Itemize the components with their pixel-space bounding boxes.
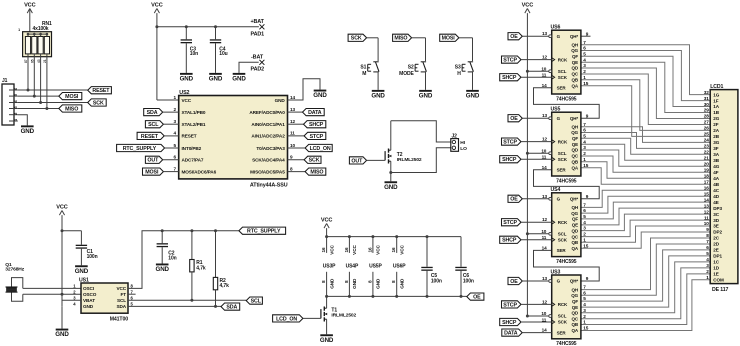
svg-text:QH*: QH* bbox=[570, 116, 579, 121]
svg-text:1B: 1B bbox=[713, 110, 719, 115]
svg-text:VCC: VCC bbox=[182, 98, 192, 103]
svg-text:SCK: SCK bbox=[93, 100, 104, 106]
svg-text:18: 18 bbox=[704, 173, 709, 178]
svg-text:QH: QH bbox=[571, 43, 578, 48]
svg-text:RESET: RESET bbox=[92, 88, 110, 94]
svg-text:OE: OE bbox=[473, 295, 481, 301]
svg-text:MOSI: MOSI bbox=[65, 94, 79, 100]
svg-text:QG: QG bbox=[571, 48, 578, 53]
svg-text:SHCP: SHCP bbox=[502, 75, 517, 81]
svg-text:14: 14 bbox=[542, 328, 547, 333]
svg-text:2A: 2A bbox=[713, 128, 719, 133]
svg-text:S3: S3 bbox=[455, 65, 461, 71]
svg-text:14: 14 bbox=[542, 245, 547, 250]
svg-text:VCC: VCC bbox=[522, 3, 534, 9]
svg-text:IRLML2502: IRLML2502 bbox=[331, 313, 356, 319]
svg-text:STCP: STCP bbox=[503, 220, 517, 226]
svg-text:15: 15 bbox=[583, 243, 588, 248]
svg-text:QB: QB bbox=[571, 322, 578, 327]
svg-text:10n: 10n bbox=[168, 256, 176, 262]
svg-text:12: 12 bbox=[542, 55, 547, 60]
svg-text:H: H bbox=[457, 71, 461, 77]
svg-text:74HC595: 74HC595 bbox=[556, 178, 577, 184]
svg-text:14: 14 bbox=[704, 197, 709, 202]
svg-text:PAD2: PAD2 bbox=[251, 67, 265, 73]
svg-text:3D: 3D bbox=[713, 218, 719, 223]
svg-text:4C: 4C bbox=[713, 188, 719, 193]
svg-text:30: 30 bbox=[704, 102, 709, 107]
svg-text:SCL: SCL bbox=[148, 122, 159, 128]
svg-text:S2: S2 bbox=[408, 65, 414, 71]
svg-text:14: 14 bbox=[542, 165, 547, 170]
svg-text:GND: GND bbox=[232, 76, 246, 83]
svg-text:GND: GND bbox=[466, 93, 480, 100]
svg-text:QG: QG bbox=[571, 293, 578, 298]
svg-text:US2: US2 bbox=[179, 90, 189, 96]
svg-text:GND: GND bbox=[209, 76, 223, 83]
svg-text:OSCO: OSCO bbox=[83, 292, 97, 297]
svg-text:GND: GND bbox=[400, 278, 405, 289]
svg-text:14: 14 bbox=[542, 83, 547, 88]
svg-text:IRLML2502: IRLML2502 bbox=[397, 157, 422, 163]
svg-text:QF: QF bbox=[572, 299, 578, 304]
svg-text:GND: GND bbox=[275, 98, 286, 103]
svg-text:XTAL1/PB0: XTAL1/PB0 bbox=[182, 110, 206, 115]
svg-text:SCK: SCK bbox=[558, 75, 568, 80]
svg-text:29: 29 bbox=[704, 108, 709, 113]
svg-text:COM: COM bbox=[713, 278, 724, 283]
svg-text:QE: QE bbox=[572, 223, 578, 228]
svg-text:SCL: SCL bbox=[251, 299, 262, 305]
svg-text:VCC: VCC bbox=[400, 245, 405, 255]
svg-text:-BAT: -BAT bbox=[251, 54, 264, 60]
svg-text:16: 16 bbox=[321, 247, 326, 252]
svg-text:LCD1: LCD1 bbox=[710, 84, 723, 90]
svg-text:27: 27 bbox=[704, 120, 709, 125]
svg-text:QB: QB bbox=[571, 240, 578, 245]
svg-text:2B: 2B bbox=[713, 134, 719, 139]
svg-text:QF: QF bbox=[572, 136, 578, 141]
svg-text:12: 12 bbox=[290, 119, 295, 124]
svg-text:32: 32 bbox=[704, 90, 709, 95]
svg-text:10: 10 bbox=[541, 148, 546, 153]
svg-text:SCK/ADC4/PA4: SCK/ADC4/PA4 bbox=[252, 158, 285, 163]
svg-text:13: 13 bbox=[542, 113, 547, 118]
svg-text:GND: GND bbox=[55, 331, 69, 338]
svg-text:4F: 4F bbox=[713, 170, 718, 175]
svg-text:10: 10 bbox=[541, 229, 546, 234]
svg-text:4,7k: 4,7k bbox=[196, 265, 206, 271]
svg-text:SCL: SCL bbox=[558, 314, 567, 319]
svg-text:US6P: US6P bbox=[393, 263, 406, 269]
svg-text:RCK: RCK bbox=[558, 57, 568, 62]
svg-text:MISO: MISO bbox=[310, 170, 323, 176]
svg-text:M: M bbox=[362, 71, 366, 77]
svg-text:13: 13 bbox=[542, 31, 547, 36]
svg-text:QH*: QH* bbox=[570, 197, 579, 202]
svg-text:QF: QF bbox=[572, 54, 578, 59]
svg-text:QB: QB bbox=[571, 77, 578, 82]
svg-text:4A: 4A bbox=[713, 176, 719, 181]
svg-text:MOSI: MOSI bbox=[145, 170, 159, 176]
svg-text:VCC: VCC bbox=[329, 245, 334, 255]
svg-text:SDA: SDA bbox=[147, 110, 158, 116]
svg-text:GND: GND bbox=[384, 184, 398, 191]
svg-text:VCC: VCC bbox=[116, 286, 126, 291]
svg-text:MISO/ADC5/PA5: MISO/ADC5/PA5 bbox=[250, 169, 285, 174]
svg-text:QH: QH bbox=[571, 125, 578, 130]
svg-text:SHCP: SHCP bbox=[309, 122, 324, 128]
svg-text:12: 12 bbox=[542, 299, 547, 304]
svg-text:16: 16 bbox=[391, 247, 396, 252]
svg-text:11: 11 bbox=[542, 155, 547, 160]
svg-text:GND: GND bbox=[180, 76, 194, 83]
svg-text:MOSI/ADC6/PA6: MOSI/ADC6/PA6 bbox=[182, 169, 217, 174]
svg-text:GND: GND bbox=[376, 278, 381, 289]
svg-text:QE: QE bbox=[572, 142, 578, 147]
svg-text:1F: 1F bbox=[713, 98, 718, 103]
svg-text:SDA: SDA bbox=[226, 305, 237, 311]
svg-text:ATtiny44A-SSU: ATtiny44A-SSU bbox=[250, 182, 288, 188]
svg-text:VCC: VCC bbox=[376, 245, 381, 255]
svg-text:GND: GND bbox=[320, 337, 334, 344]
svg-text:+BAT: +BAT bbox=[251, 19, 265, 25]
svg-text:10: 10 bbox=[541, 311, 546, 316]
svg-text:T1: T1 bbox=[331, 308, 337, 314]
svg-text:GND: GND bbox=[352, 278, 357, 289]
svg-text:DATA: DATA bbox=[504, 331, 518, 337]
svg-text:GND: GND bbox=[371, 93, 385, 100]
svg-text:SCK: SCK bbox=[309, 158, 320, 164]
svg-text:QA: QA bbox=[571, 83, 578, 88]
svg-text:PAD1: PAD1 bbox=[251, 32, 265, 38]
svg-text:QG: QG bbox=[571, 211, 578, 216]
svg-text:SER: SER bbox=[557, 330, 567, 335]
svg-text:SHCP: SHCP bbox=[502, 157, 517, 163]
svg-text:3E: 3E bbox=[713, 224, 718, 229]
svg-text:DATA: DATA bbox=[308, 110, 322, 116]
svg-text:OE: OE bbox=[510, 116, 518, 122]
svg-text:US1: US1 bbox=[79, 278, 89, 284]
svg-text:2E: 2E bbox=[713, 248, 718, 253]
svg-text:QH*: QH* bbox=[570, 279, 579, 284]
svg-text:ADC7/PA7: ADC7/PA7 bbox=[182, 158, 204, 163]
svg-text:LO: LO bbox=[460, 146, 467, 152]
svg-text:12: 12 bbox=[704, 209, 709, 214]
svg-text:10: 10 bbox=[541, 66, 546, 71]
svg-text:QH: QH bbox=[571, 287, 578, 292]
svg-text:MODE: MODE bbox=[399, 71, 414, 77]
svg-text:3F: 3F bbox=[713, 146, 718, 151]
svg-text:QF: QF bbox=[572, 217, 578, 222]
svg-text:US5: US5 bbox=[551, 107, 561, 113]
svg-text:QA: QA bbox=[571, 165, 578, 170]
svg-text:XTAL2/PB1: XTAL2/PB1 bbox=[182, 122, 206, 127]
svg-text:AREF/ADC0/PA0: AREF/ADC0/PA0 bbox=[249, 110, 285, 115]
svg-text:74HC595: 74HC595 bbox=[556, 96, 577, 102]
svg-text:1C: 1C bbox=[713, 260, 719, 265]
svg-text:LCD_ON: LCD_ON bbox=[276, 316, 297, 322]
svg-text:26: 26 bbox=[704, 126, 709, 131]
svg-text:STCP: STCP bbox=[503, 140, 517, 146]
svg-text:4D: 4D bbox=[713, 194, 719, 199]
svg-text:SCL: SCL bbox=[558, 151, 567, 156]
svg-text:4G: 4G bbox=[713, 164, 719, 169]
svg-text:QD: QD bbox=[571, 311, 578, 316]
svg-text:SER: SER bbox=[557, 86, 567, 91]
svg-text:10: 10 bbox=[704, 221, 709, 226]
svg-text:QE: QE bbox=[572, 305, 578, 310]
svg-text:12: 12 bbox=[542, 217, 547, 222]
svg-text:4x100k: 4x100k bbox=[33, 26, 49, 32]
svg-text:4E: 4E bbox=[713, 200, 718, 205]
svg-text:QD: QD bbox=[571, 66, 578, 71]
svg-text:1D: 1D bbox=[713, 266, 719, 271]
svg-text:13: 13 bbox=[542, 276, 547, 281]
svg-text:4B: 4B bbox=[713, 182, 719, 187]
svg-text:US3P: US3P bbox=[323, 263, 336, 269]
svg-text:11: 11 bbox=[542, 235, 547, 240]
svg-text:INT0/PB2: INT0/PB2 bbox=[182, 146, 202, 151]
svg-text:SHCP: SHCP bbox=[502, 238, 517, 244]
svg-text:DP2: DP2 bbox=[713, 230, 722, 235]
svg-text:10u: 10u bbox=[219, 51, 227, 57]
svg-text:SDA: SDA bbox=[116, 304, 126, 309]
svg-text:100n: 100n bbox=[431, 278, 442, 284]
svg-text:VCC: VCC bbox=[24, 3, 36, 9]
svg-text:3G: 3G bbox=[713, 140, 719, 145]
svg-text:12: 12 bbox=[542, 137, 547, 142]
svg-text:2C: 2C bbox=[713, 236, 719, 241]
svg-text:S1: S1 bbox=[360, 65, 366, 71]
svg-text:VCC: VCC bbox=[56, 205, 68, 211]
svg-text:100n: 100n bbox=[87, 254, 98, 260]
svg-text:3C: 3C bbox=[713, 212, 719, 217]
svg-text:RCK: RCK bbox=[558, 220, 568, 225]
svg-text:T0/ADC3/PA3: T0/ADC3/PA3 bbox=[256, 146, 285, 151]
svg-text:MISO: MISO bbox=[65, 106, 78, 112]
svg-text:20: 20 bbox=[704, 162, 709, 167]
svg-text:DE 117: DE 117 bbox=[712, 287, 729, 293]
svg-text:10: 10 bbox=[290, 143, 295, 148]
svg-text:RESET: RESET bbox=[182, 134, 197, 139]
svg-text:11: 11 bbox=[704, 215, 709, 220]
svg-text:2G: 2G bbox=[713, 116, 719, 121]
svg-text:11: 11 bbox=[542, 317, 547, 322]
svg-text:QH: QH bbox=[571, 205, 578, 210]
svg-text:MOSI: MOSI bbox=[442, 36, 456, 42]
svg-text:32768Hz: 32768Hz bbox=[5, 267, 24, 273]
svg-text:OSCI: OSCI bbox=[83, 286, 94, 291]
svg-text:3B: 3B bbox=[713, 158, 719, 163]
svg-text:STCP: STCP bbox=[310, 134, 324, 140]
svg-text:13: 13 bbox=[704, 203, 709, 208]
svg-text:15: 15 bbox=[583, 326, 588, 331]
svg-text:QA: QA bbox=[571, 246, 578, 251]
svg-text:RCK: RCK bbox=[558, 302, 568, 307]
svg-text:16: 16 bbox=[367, 247, 372, 252]
svg-text:MISO: MISO bbox=[394, 36, 407, 42]
svg-text:OE: OE bbox=[510, 34, 518, 40]
svg-text:DP1: DP1 bbox=[713, 254, 722, 259]
svg-text:28: 28 bbox=[704, 114, 709, 119]
svg-text:STCP: STCP bbox=[503, 58, 517, 64]
svg-text:25: 25 bbox=[704, 132, 709, 137]
svg-text:GND: GND bbox=[313, 92, 327, 99]
svg-text:SER: SER bbox=[557, 168, 567, 173]
svg-text:RESET: RESET bbox=[141, 134, 159, 140]
svg-text:GND: GND bbox=[83, 304, 94, 309]
svg-text:QB: QB bbox=[571, 159, 578, 164]
svg-text:US4P: US4P bbox=[346, 263, 359, 269]
svg-text:OE: OE bbox=[510, 197, 518, 203]
svg-text:QC: QC bbox=[571, 317, 578, 322]
svg-text:QC: QC bbox=[571, 72, 578, 77]
svg-text:31: 31 bbox=[704, 96, 709, 101]
svg-text:15: 15 bbox=[583, 163, 588, 168]
svg-text:VBAT: VBAT bbox=[83, 298, 95, 303]
svg-text:100n: 100n bbox=[463, 278, 474, 284]
svg-text:13: 13 bbox=[542, 194, 547, 199]
svg-text:LCD_ON: LCD_ON bbox=[310, 146, 331, 152]
svg-text:DP3: DP3 bbox=[713, 206, 722, 211]
svg-text:SCK: SCK bbox=[558, 238, 568, 243]
svg-text:10n: 10n bbox=[190, 51, 198, 57]
svg-text:SCK: SCK bbox=[558, 320, 568, 325]
svg-text:T2: T2 bbox=[397, 152, 403, 158]
svg-text:2D: 2D bbox=[713, 242, 719, 247]
svg-text:24: 24 bbox=[704, 138, 709, 143]
svg-text:OUT: OUT bbox=[351, 158, 363, 164]
svg-text:SCL: SCL bbox=[558, 232, 567, 237]
svg-text:23: 23 bbox=[704, 144, 709, 149]
svg-text:RCK: RCK bbox=[558, 139, 568, 144]
svg-text:SHCP: SHCP bbox=[502, 320, 517, 326]
svg-text:1E: 1E bbox=[713, 272, 718, 277]
svg-text:13: 13 bbox=[290, 107, 295, 112]
svg-text:AIN1/ADC2/PA2: AIN1/ADC2/PA2 bbox=[251, 134, 285, 139]
svg-text:US6: US6 bbox=[551, 25, 561, 31]
svg-text:1A: 1A bbox=[713, 104, 719, 109]
svg-text:OE: OE bbox=[510, 279, 518, 285]
svg-text:SER: SER bbox=[557, 248, 567, 253]
svg-text:QD: QD bbox=[571, 148, 578, 153]
svg-text:SCK: SCK bbox=[351, 36, 362, 42]
svg-text:US5P: US5P bbox=[369, 263, 382, 269]
svg-text:J1: J1 bbox=[2, 78, 8, 84]
svg-text:QG: QG bbox=[571, 130, 578, 135]
svg-text:RTC_SUPPLY: RTC_SUPPLY bbox=[123, 146, 157, 152]
svg-text:QE: QE bbox=[572, 60, 578, 65]
svg-text:VCC: VCC bbox=[151, 3, 163, 9]
svg-text:11: 11 bbox=[290, 131, 295, 136]
svg-text:STCP: STCP bbox=[503, 302, 517, 308]
svg-text:GND: GND bbox=[156, 266, 170, 273]
svg-text:GND: GND bbox=[21, 128, 35, 135]
svg-text:US4: US4 bbox=[551, 187, 561, 193]
svg-text:16: 16 bbox=[344, 247, 349, 252]
svg-text:22: 22 bbox=[704, 150, 709, 155]
svg-text:US3: US3 bbox=[551, 269, 561, 275]
svg-text:FT: FT bbox=[121, 292, 127, 297]
svg-text:3A: 3A bbox=[713, 152, 719, 157]
svg-text:VCC: VCC bbox=[321, 218, 333, 224]
svg-text:15: 15 bbox=[704, 191, 709, 196]
svg-text:OUT: OUT bbox=[147, 158, 159, 164]
svg-text:1G: 1G bbox=[713, 92, 719, 97]
svg-text:HI: HI bbox=[460, 140, 465, 146]
svg-text:GND: GND bbox=[329, 278, 334, 289]
svg-text:M41T00: M41T00 bbox=[110, 316, 129, 322]
svg-text:GND: GND bbox=[75, 268, 89, 275]
svg-text:15: 15 bbox=[583, 81, 588, 86]
svg-text:4,7k: 4,7k bbox=[220, 283, 230, 289]
svg-text:SCK: SCK bbox=[558, 157, 568, 162]
svg-text:QH*: QH* bbox=[570, 34, 579, 39]
svg-text:RTC_SUPPLY: RTC_SUPPLY bbox=[247, 229, 281, 235]
svg-text:SCL: SCL bbox=[558, 69, 567, 74]
svg-text:VCC: VCC bbox=[352, 245, 357, 255]
svg-text:1: 1 bbox=[18, 28, 20, 32]
svg-text:GND: GND bbox=[419, 93, 433, 100]
svg-text:74HC595: 74HC595 bbox=[556, 341, 577, 346]
svg-text:AIN0/ADC1/PA1: AIN0/ADC1/PA1 bbox=[251, 122, 285, 127]
svg-text:17: 17 bbox=[704, 179, 709, 184]
svg-text:QA: QA bbox=[571, 328, 578, 333]
svg-text:19: 19 bbox=[704, 168, 709, 173]
svg-text:11: 11 bbox=[542, 73, 547, 78]
svg-text:J2: J2 bbox=[452, 134, 458, 140]
svg-text:14: 14 bbox=[290, 95, 295, 100]
svg-text:SCL: SCL bbox=[117, 298, 126, 303]
svg-text:16: 16 bbox=[704, 185, 709, 190]
svg-text:QC: QC bbox=[571, 234, 578, 239]
svg-text:QC: QC bbox=[571, 154, 578, 159]
svg-text:74HC595: 74HC595 bbox=[556, 259, 577, 265]
svg-text:QD: QD bbox=[571, 228, 578, 233]
svg-text:21: 21 bbox=[704, 156, 709, 161]
svg-text:2F: 2F bbox=[713, 122, 718, 127]
